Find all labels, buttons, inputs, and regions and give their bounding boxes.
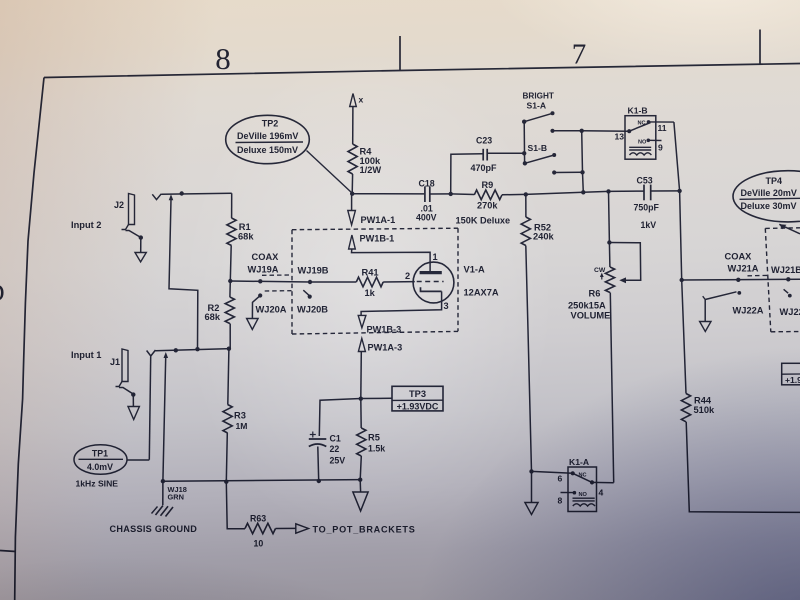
label CW [594,267,606,274]
wire C53 node down [680,191,682,280]
label WJ18 [168,485,187,494]
svg-text:1/2W: 1/2W [360,165,382,175]
tube V1-A envelope [413,262,454,303]
wire R5 top lead [360,399,362,428]
jack J1 contact dot [131,392,135,396]
label WJ21A [728,263,759,273]
relay K1-B box [625,116,656,160]
svg-text:CW: CW [594,267,606,274]
svg-text:COAX: COAX [725,251,753,261]
node WJ20B dot [308,295,312,299]
connector arrow PW1B-3 [358,315,366,327]
label R3 value [234,410,247,431]
switch WJ22A arm [703,292,737,300]
jack J2 switch arrow [169,194,174,200]
svg-text:240k: 240k [533,231,555,241]
relay K1-A NO contact [573,491,588,498]
svg-text:2: 2 [405,271,410,281]
svg-text:Deluxe 30mV: Deluxe 30mV [741,201,797,211]
TP3 divider [392,399,443,401]
ground arrow below WJ22A [700,322,711,332]
svg-text:VOLUME: VOLUME [571,310,611,320]
label TP3 voltage [397,402,439,412]
svg-text:13: 13 [615,132,625,142]
svg-text:4.0mV: 4.0mV [87,462,113,472]
wire line B ground bus [163,480,361,482]
wire K1-A pin 6 lead [532,471,573,473]
label pin 4 [599,487,604,497]
svg-text:R3: R3 [234,410,246,420]
svg-text:8: 8 [215,41,231,76]
test point TP4 oval [733,171,800,222]
wire R63 to arrow [276,527,296,529]
label TP2 DeVille [237,131,298,141]
wire C53 right lead [651,190,680,192]
TP2 pointer line [307,151,353,194]
resistor R4 [348,144,357,174]
svg-text:12AX7A: 12AX7A [464,288,499,298]
node WJ19B dot [308,280,312,284]
label WJ20B [297,304,328,314]
svg-text:250k15A: 250k15A [568,300,606,310]
border tick mark 2 [759,30,761,65]
jack J1 tip hook [147,350,156,356]
label COAX right [725,251,753,261]
svg-text:68k: 68k [205,312,221,322]
svg-text:11: 11 [658,123,667,133]
wire R5 bottom lead [360,456,361,480]
jack J2 body [122,194,141,238]
node C53 junction [677,189,681,193]
label WJ22B [780,307,800,317]
label S1-A [527,101,547,111]
label PW1A-1 [361,215,396,225]
wire main node to volume [583,191,643,192]
svg-text:25V: 25V [330,455,346,465]
svg-text:10: 10 [254,538,264,548]
wire PW1A-3 lead [360,352,363,399]
svg-text:C1: C1 [330,433,341,443]
svg-text:J2: J2 [114,200,124,210]
wire plate lead [352,249,431,272]
zone number 8 [215,41,231,76]
wire TP3 lead [361,397,392,399]
wire K1-B pin 9 stub [648,139,661,141]
wire C18 to junction [430,193,451,195]
capacitor C23 right plate [486,149,488,161]
wire C23 riser [451,154,483,194]
dashed box PW1B right [457,228,459,331]
relay K1-B NC contact [638,120,651,126]
wire volume riser [608,191,611,242]
svg-text:150K Deluxe: 150K Deluxe [456,215,511,225]
svg-text:R9: R9 [482,180,494,190]
wire R52 top lead [525,194,527,217]
label PW1B-3 [367,324,402,334]
svg-text:WJ19B: WJ19B [298,266,329,276]
label PW1B-1 [360,234,395,244]
svg-text:PW1B‑1: PW1B‑1 [360,234,395,244]
wire R2 bottom lead [229,324,231,349]
TP2 divider [236,141,304,144]
wire line A [156,349,231,351]
node WJ20A dot [258,293,262,297]
svg-text:WJ22B: WJ22B [780,307,800,317]
svg-text:TP4: TP4 [766,176,783,186]
node S1 vertical junction [581,190,585,194]
svg-text:DeVille 196mV: DeVille 196mV [237,131,298,141]
svg-text:K1‑A: K1‑A [569,457,589,467]
wire grid lead [383,281,415,283]
jack J1 label [110,357,120,367]
label 12AX7A [464,288,499,298]
label Input 1 [71,350,101,360]
wire K1-A pin 4 [592,481,614,483]
node R52 junction [524,192,528,196]
svg-text:TP1: TP1 [92,449,108,459]
svg-text:x: x [359,95,364,105]
label 150K Deluxe [456,215,511,225]
label WJ22A [733,305,764,315]
dashed box right top [765,227,800,230]
svg-text:C53: C53 [637,175,653,185]
label C53 rating [641,220,657,230]
svg-text:6: 6 [558,473,563,483]
svg-text:R41: R41 [362,267,379,277]
label BRIGHT [523,91,554,100]
chassis ground symbol [152,506,174,517]
svg-text:470pF: 470pF [471,163,498,173]
border top edge [44,64,800,78]
svg-text:TO_POT_BRACKETS: TO_POT_BRACKETS [313,524,416,534]
wire wiper loop [609,243,640,281]
svg-text:1: 1 [433,252,438,262]
label C18 value [416,203,437,222]
ground arrow below WJ20A [247,319,259,330]
relay K1-A NC arm [573,473,592,482]
relay K1-B label [628,106,648,116]
label TP2 Deluxe [237,145,298,155]
node line A dot 1 [174,348,178,352]
svg-text:J1: J1 [110,357,120,367]
jack J2 contact dot [139,235,143,239]
wire cathode lead [361,291,442,315]
resistor R44 [681,394,690,422]
node line A dot R2R3 [227,347,231,351]
capacitor C1 top plate [309,438,327,440]
label tube pin 1 [433,252,438,262]
wire ground stub below line B [359,480,361,492]
ground arrow below J2 [135,253,146,262]
label pin 9 [658,142,663,152]
node line B R5 dot [358,478,362,482]
node line B WJ18 dot [161,479,165,483]
svg-text:K1‑B: K1‑B [628,106,648,116]
svg-text:D: D [0,280,5,307]
node WJ21A dot [736,278,740,282]
wire R44 top lead [682,280,686,394]
jack J1 body [116,349,133,394]
label CHASSIS GROUND [110,524,198,534]
wire S1-B to vertical [554,171,582,173]
svg-text:COAX: COAX [252,252,280,262]
svg-text:BRIGHT: BRIGHT [523,91,554,100]
label R1 value [238,222,254,241]
label TP2 [262,118,279,128]
svg-text:WJ21A: WJ21A [728,263,759,273]
wire coax line [230,281,356,282]
node WJ21 junction [680,278,684,282]
wire WJ21 coax line [682,278,800,281]
label R63 [250,513,266,523]
wire R63 branch [226,482,245,529]
capacitor C18 left plate [424,186,426,202]
border left edge [15,78,44,600]
wire S1 common vertical [523,122,525,164]
label R41 value [365,288,376,298]
jack J2 label [114,200,124,210]
wire J2 tip line [161,193,231,194]
capacitor C18 right plate [429,186,431,202]
svg-text:1kV: 1kV [641,220,657,230]
label TP1 4.0mV [87,462,113,472]
wire R2 top lead [229,281,231,297]
resistor R52 [521,217,530,246]
capacitor C23 left plate [482,149,484,161]
wire S1 right vertical [582,131,584,193]
wire WJ22B contact tick [784,289,789,293]
svg-text:NO: NO [579,492,588,498]
svg-text:WJ20B: WJ20B [297,304,328,314]
svg-text:750pF: 750pF [634,202,660,212]
label R9 value [477,200,498,210]
svg-text:1M: 1M [236,421,248,431]
label R41 [362,267,379,277]
wire C1 bottom lead [317,447,320,482]
svg-text:9: 9 [658,142,663,152]
capacitor C1 polarity plus [310,432,316,438]
node J2 tip junction [180,191,184,195]
wire main node line [352,193,424,195]
wire K1-B pin 11 [649,121,674,123]
dashed box PW1B top [292,228,458,230]
capacitor C1 bottom plate [309,444,327,447]
tube V1-A plate [420,271,442,274]
relay K1-A pin 4 dot [590,480,594,484]
svg-text:WJ19A: WJ19A [248,264,279,274]
zone number 7 [572,39,587,71]
svg-text:510k: 510k [694,405,716,415]
svg-text:270k: 270k [477,200,498,210]
resistor R63 [245,523,276,533]
TP4 pointer line [779,224,800,234]
svg-text:NO: NO [638,140,647,146]
label WJ21B [771,265,800,275]
relay K1-B NO contact [638,139,650,146]
switch S1-A arm [522,111,555,124]
label VOLUME [571,310,611,320]
label R2 value [205,303,221,322]
label R6 value [568,300,606,310]
border zone tick left [0,551,16,552]
svg-text:C23: C23 [476,135,492,145]
svg-text:R44: R44 [694,395,712,405]
switch S1-B contact [552,170,556,174]
svg-text:7: 7 [572,39,587,71]
label R63 value 10 [254,538,264,548]
svg-text:1.5k: 1.5k [368,443,385,453]
resistor R2 [225,297,234,324]
relay K1-B pin 13 dot [627,129,631,133]
node WJ22B contact dot [788,294,792,298]
node R4 junction [350,192,354,196]
label pin 13 [615,132,625,142]
svg-text:4: 4 [599,487,604,497]
svg-text:NC: NC [638,120,646,126]
ground arrow below K1-A [525,503,538,515]
label R5 value [368,432,385,453]
connector arrow PW1B-1 [349,235,356,249]
label R44 value [694,395,716,415]
node WJ19A dot [258,279,262,283]
wire R6 to K1-A pin 4 [610,293,613,483]
wire R4 bottom lead [351,174,353,194]
wire K1-A ground stub [531,471,533,502]
node S1-A vertical dot [580,129,584,133]
node K1-A left junction [529,469,533,473]
svg-text:WJ21B: WJ21B [771,265,800,275]
label C1 value [330,433,346,465]
relay K1-A label [569,457,589,467]
wire R6 top lead [608,243,611,268]
dashed box PW1B bottom [292,331,458,334]
label 1kHz SINE [76,478,119,488]
tube V1-A cathode [421,287,442,291]
switch S1-B arm [523,153,557,166]
svg-text:GRN: GRN [168,492,184,501]
wire J2 sleeve to ground [140,239,142,253]
wire WJ18 ground lead [163,358,166,482]
svg-text:TP3: TP3 [409,389,426,399]
label TO_POT_BRACKETS [313,524,416,534]
wire WJ22A ground stub [704,300,706,322]
node S1-B vertical dot [580,170,584,174]
svg-text:S1‑A: S1‑A [527,101,547,111]
wire C23 to S1 [487,152,524,154]
label Input 2 [71,220,101,230]
wire K1-B to C53 node [674,122,680,191]
coax shield dashes WJ21 [748,274,769,276]
svg-text:+1.93VDC: +1.93VDC [397,402,439,412]
label TP1 [92,449,108,459]
wire main node to S1 vertical [502,192,583,195]
potentiometer R6 [605,267,614,293]
label V1-A [464,265,485,275]
wire J2 switch to line A [169,200,198,349]
label TP4 [766,176,783,186]
resistor R1 [227,218,236,246]
label C23 value [471,163,498,173]
label TP3 [409,389,426,399]
relay K1-B NC arm [629,123,650,132]
label tube pin 2 [405,271,410,281]
wire R9 left lead [451,193,475,196]
label C23 [476,135,492,145]
svg-text:TP2: TP2 [262,118,279,128]
wire R52 long lead [526,246,532,472]
label C53 [637,175,653,185]
node WJ22A contact dot [737,291,741,295]
svg-text:WJ22A: WJ22A [733,305,764,315]
dashed box right bottom [771,331,800,333]
wire J1 tip stub [149,357,150,460]
label x [359,95,364,105]
label S1-B [528,143,548,153]
wire K1-A pin 8 stub [561,492,575,494]
svg-text:S1‑B: S1‑B [528,143,548,153]
node line B R3 dot [224,480,228,484]
label TP4 Deluxe [741,201,797,211]
svg-text:Input 2: Input 2 [71,220,101,230]
node volume junction [606,189,610,193]
node WJ21B dot [786,277,790,281]
label R6 [589,288,601,298]
wire S1-A to K1-B pin 13 [553,130,630,132]
label pin 11 [658,123,667,133]
svg-text:PW1B‑3: PW1B‑3 [367,324,402,334]
label C53 value [634,202,660,212]
resistor R9 [474,190,502,200]
capacitor C53 left plate [643,185,645,201]
capacitor C53 right plate [650,185,652,201]
svg-text:DeVille 20mV: DeVille 20mV [741,188,797,198]
TP4 divider [740,198,800,199]
svg-text:Input 1: Input 1 [71,350,101,360]
wire R1 bottom lead [229,246,232,281]
wire R1 top lead [231,193,233,218]
label pin 6 [558,473,563,483]
svg-text:CHASSIS GROUND: CHASSIS GROUND [110,524,198,534]
test point TP2 oval [226,115,310,163]
wiper arrowhead [619,277,626,283]
coax shield dashes WJ20 [265,290,292,292]
svg-text:Deluxe 150mV: Deluxe 150mV [237,145,298,155]
node line A dot 2 [195,347,199,351]
node coax junction WJ19A [228,279,232,283]
node volume wiper junction [607,240,611,244]
label TP4 DeVille [741,188,797,198]
border tick mark 1 [399,36,401,71]
label PW1A-3 [368,342,403,352]
relay K1-A box [568,467,597,512]
resistor R5 [357,428,366,456]
connector arrow PW1A-1 [348,211,356,225]
label R9 [482,180,494,190]
relay K1-A coil [573,498,596,506]
label R4 value [360,147,382,176]
test point box right edge [782,363,800,385]
node line B C1 dot [317,479,321,483]
power arrow x [350,94,357,107]
svg-text:1k: 1k [365,288,376,298]
svg-text:1kHz SINE: 1kHz SINE [76,478,119,488]
arrow TO_POT_BRACKETS [296,524,309,533]
resistor R3 [223,405,232,434]
relay K1-A pin 6 dot [571,471,587,478]
node PW1A-3 junction [359,397,363,401]
wire J1 sleeve to ground [132,396,134,407]
svg-text:PW1A‑3: PW1A‑3 [368,342,403,352]
